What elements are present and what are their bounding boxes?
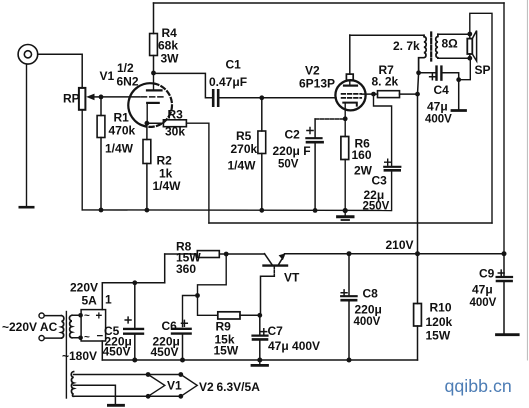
svg-text:160: 160 — [352, 148, 372, 162]
svg-text:470k: 470k — [109, 124, 136, 138]
wire C1 to V2 grid — [220, 97, 337, 99]
ground bus — [82, 209, 391, 212]
heater centre tap to ground — [74, 385, 116, 404]
svg-text:RP: RP — [63, 91, 80, 105]
svg-text:R9: R9 — [216, 320, 232, 334]
heater bottom wire — [74, 395, 181, 397]
svg-text:C4: C4 — [434, 83, 450, 97]
svg-text:C2: C2 — [285, 128, 301, 142]
ground (C4) — [452, 109, 466, 112]
power transformer primary — [62, 316, 64, 339]
svg-text:C1: C1 — [226, 58, 242, 72]
node bus R5 — [259, 208, 264, 213]
node rail C9 — [502, 251, 507, 256]
svg-text:V1: V1 — [167, 379, 182, 393]
node C5 top — [132, 280, 137, 285]
right B+ drop from top wire — [503, 3, 505, 254]
resistor R2 — [143, 123, 181, 210]
svg-text:1/4W: 1/4W — [153, 179, 182, 193]
capacitor C7 47u 400V — [253, 315, 321, 360]
svg-text:47μ: 47μ — [472, 283, 493, 297]
ground (below C7) — [252, 360, 268, 365]
resistor R9 15k 15W — [214, 312, 260, 358]
svg-text:15W: 15W — [426, 329, 451, 343]
svg-text:C9: C9 — [479, 267, 495, 281]
node rail C8 — [347, 251, 352, 256]
power transformer HV secondary — [62, 281, 98, 364]
svg-text:8Ω: 8Ω — [442, 37, 459, 51]
wire screen g2 to R7 — [362, 93, 378, 95]
capacitor C3 22u 250V — [363, 159, 401, 212]
heater top wire — [74, 374, 181, 376]
capacitor C5 220u 450V — [103, 283, 144, 360]
wires input to primary — [44, 316, 61, 339]
wire node A to C6 — [183, 296, 198, 327]
svg-text:SP: SP — [475, 63, 491, 77]
svg-text:270k: 270k — [231, 142, 258, 156]
node rectifier in bottom — [78, 336, 83, 341]
wire plate V2 to transformer — [350, 34, 424, 36]
svg-text:50V: 50V — [278, 159, 299, 171]
output transformer primary 2.7k — [393, 35, 426, 71]
capacitor C6 220u 450V — [151, 319, 191, 360]
svg-text:C3: C3 — [372, 174, 388, 188]
ground (heater) — [108, 404, 123, 407]
svg-text:5A: 5A — [82, 294, 98, 308]
svg-text:6P13P: 6P13P — [299, 77, 335, 91]
svg-text:~: ~ — [84, 311, 90, 322]
svg-text:220V: 220V — [70, 281, 98, 295]
svg-text:1/4W: 1/4W — [228, 159, 257, 173]
heater chevron V1 — [148, 375, 182, 397]
node speaker top — [467, 32, 472, 37]
heater nodes — [146, 372, 184, 399]
svg-text:R2: R2 — [157, 154, 173, 168]
svg-text:R1: R1 — [114, 111, 130, 125]
heater winding 6.3V — [71, 372, 73, 397]
svg-text:360: 360 — [176, 262, 196, 276]
svg-text:1/2: 1/2 — [117, 61, 134, 75]
node rectifier in top — [78, 313, 83, 318]
svg-text:47μ 400V: 47μ 400V — [268, 339, 320, 353]
node C4 right — [456, 77, 461, 82]
capacitor C8 220u 400V — [341, 254, 382, 360]
power input terminals — [39, 313, 44, 341]
node A — [195, 293, 200, 298]
rectifier bridge 1 — [81, 293, 112, 344]
svg-text:~180V: ~180V — [62, 349, 97, 363]
svg-text:220μ F: 220μ F — [273, 144, 311, 158]
svg-text:6N2: 6N2 — [117, 75, 139, 89]
wire jack ground — [26, 64, 28, 206]
ground bar (C9 bottom) — [497, 333, 519, 336]
svg-text:8. 2k: 8. 2k — [372, 75, 399, 89]
output transformer core — [430, 33, 432, 61]
feedback wire right side up to speaker — [470, 13, 492, 223]
svg-text:~: ~ — [84, 332, 90, 343]
input jack J1 — [18, 45, 38, 65]
wire rectifier + up to C5 rail — [102, 283, 164, 310]
svg-text:V2: V2 — [199, 380, 214, 394]
wire rectifier - down to bottom rail — [101, 341, 103, 360]
210V rail — [285, 238, 505, 254]
resistor R4 — [150, 3, 180, 71]
heater chevron V2 — [181, 375, 260, 397]
output transformer secondary 8ohm — [436, 34, 470, 58]
wire node A (R8 out to C6/R9) — [198, 254, 227, 296]
capacitor C4 47u 400V — [419, 67, 459, 126]
speaker SP — [467, 31, 490, 77]
svg-text:400V: 400V — [425, 114, 452, 126]
svg-text:220μ: 220μ — [355, 303, 382, 317]
wire plate V1 to C1 — [154, 73, 212, 97]
svg-text:VT: VT — [284, 271, 300, 285]
resistor R8 15W 360 — [165, 240, 265, 277]
svg-text:qqibb.cn: qqibb.cn — [445, 376, 512, 396]
svg-text:R3: R3 — [168, 108, 184, 122]
power transformer core — [65, 312, 67, 399]
feedback wire bottom — [209, 222, 492, 224]
svg-text:47μ: 47μ — [427, 100, 448, 114]
svg-text:3W: 3W — [161, 52, 180, 66]
ground (jack) — [20, 206, 33, 209]
svg-text:15W: 15W — [214, 344, 239, 358]
right edge scan line — [526, 0, 528, 360]
svg-text:C8: C8 — [363, 287, 379, 301]
svg-text:V2: V2 — [305, 64, 320, 78]
svg-text:450V: 450V — [103, 345, 131, 359]
node plate V1 — [151, 71, 156, 76]
svg-text:2W: 2W — [354, 164, 373, 178]
svg-text:1/4W: 1/4W — [105, 142, 134, 156]
node R7/B+ line — [415, 92, 420, 97]
RP wiper arrow — [86, 94, 101, 101]
potentiometer RP — [63, 88, 85, 110]
transistor VT — [261, 253, 301, 315]
svg-text:2. 7k: 2. 7k — [393, 39, 420, 53]
resistor R6 160 2W — [341, 119, 373, 211]
node bus C2 — [313, 208, 318, 213]
svg-text:210V: 210V — [386, 238, 414, 252]
node cathode V1 — [145, 121, 150, 126]
svg-text:30k: 30k — [165, 125, 185, 139]
svg-text:~220V AC: ~220V AC — [2, 320, 58, 334]
svg-text:450V: 450V — [151, 345, 179, 359]
svg-text:120k: 120k — [426, 315, 453, 329]
tube V2 (6P13P) — [299, 35, 366, 119]
node R9/VT base/C7 — [257, 313, 262, 318]
wire C2 to V2 cathode — [315, 118, 345, 120]
resistor R7 8.2k — [372, 63, 418, 98]
node bus R6 — [343, 208, 348, 213]
tube V1 (1/2 6N2) — [100, 61, 172, 127]
wire jack to RP — [38, 54, 82, 88]
node bus R1 — [99, 208, 104, 213]
node g2/R7 — [371, 92, 376, 97]
wire node A to R9 — [198, 296, 218, 316]
node C1/R5 junction — [259, 95, 264, 100]
node grid V1 / R1 — [99, 95, 104, 100]
svg-text:R10: R10 — [430, 301, 452, 315]
capacitor C2 220uF 50V — [273, 119, 323, 210]
svg-text:68k: 68k — [158, 39, 178, 53]
resistor R10 120k 15W — [414, 254, 453, 360]
capacitor C1 0.47uF — [209, 58, 247, 106]
top B+ wire — [154, 2, 505, 4]
bottom rail — [102, 359, 417, 361]
node speaker bottom — [467, 56, 472, 61]
resistor R1 — [97, 97, 135, 210]
wire g2 bypass to C3 — [374, 94, 392, 166]
node rail C5 — [132, 358, 137, 363]
svg-text:+: + — [96, 311, 103, 323]
node rail R10 — [415, 251, 420, 256]
svg-text:V1: V1 — [100, 69, 115, 83]
wire C4 to ground — [458, 80, 460, 110]
node bus R2 — [145, 208, 150, 213]
wire rail to R8 riser — [164, 254, 166, 283]
wire C4 to speaker bottom — [459, 58, 471, 79]
node primary bottom / C4 — [416, 70, 421, 75]
node R8 out / VT collector — [224, 252, 229, 257]
capacitor C9 47u 400V — [470, 254, 513, 334]
wire RP bottom to ground bus — [81, 110, 83, 210]
svg-text:1: 1 — [105, 293, 112, 307]
node rail C7 — [257, 358, 262, 363]
node rail C6 — [180, 358, 185, 363]
node rail C8 — [347, 358, 352, 363]
svg-text:R5: R5 — [236, 129, 252, 143]
resistor R3 + wire to feedback — [147, 108, 209, 224]
svg-text:250V: 250V — [363, 201, 390, 213]
resistor R5 — [228, 98, 266, 211]
ground (bus, below R6) — [338, 211, 353, 221]
svg-text:400V: 400V — [354, 316, 381, 328]
wire grid V1 — [101, 96, 140, 98]
svg-text:C6: C6 — [162, 319, 178, 333]
B+ vertical line (primary bottom to 210V rail) — [418, 73, 419, 254]
svg-text:400V: 400V — [470, 297, 497, 309]
svg-text:C7: C7 — [268, 324, 284, 338]
node cathode V2 — [343, 116, 348, 121]
svg-text:0.47μF: 0.47μF — [209, 75, 247, 89]
svg-text:6.3V/5A: 6.3V/5A — [217, 380, 261, 394]
